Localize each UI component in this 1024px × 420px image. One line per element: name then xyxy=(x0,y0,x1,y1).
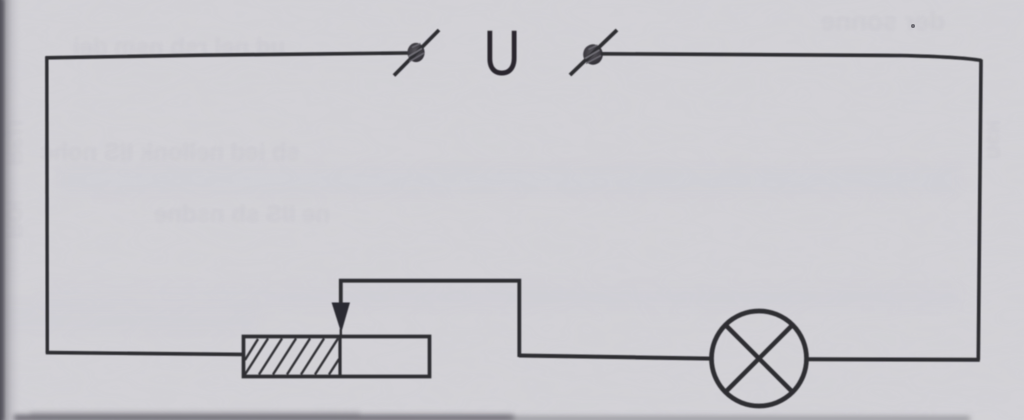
svg-text:der sonne: der sonne xyxy=(821,6,945,36)
wire: bottom middle segment (lamp to step) xyxy=(519,356,712,359)
left gutter shadow xyxy=(0,0,22,420)
faint bleed-through print bands xyxy=(0,165,960,332)
source terminal left xyxy=(394,30,439,76)
source terminal right xyxy=(570,30,617,75)
potentiometer hatched section xyxy=(245,339,339,375)
wire: bottom right segment xyxy=(806,357,980,362)
potentiometer R1 body xyxy=(244,336,430,377)
svg-text:ne IIS sb nsdne: ne IIS sb nsdne xyxy=(154,201,330,228)
wire: top left segment xyxy=(46,53,409,58)
svg-text:U: U xyxy=(484,19,521,90)
bottom shadow xyxy=(14,412,970,420)
lamp L1 xyxy=(712,311,807,406)
wiper arrow xyxy=(332,303,349,336)
svg-text:нэп: нэп xyxy=(983,120,1008,159)
label U xyxy=(484,19,521,90)
wire: right vertical xyxy=(978,60,981,361)
speck xyxy=(911,24,915,28)
wire: top right segment xyxy=(601,54,982,61)
wire: left vertical xyxy=(45,57,49,354)
wire: bottom left segment xyxy=(46,353,243,355)
svg-text:sb ied nellonk IIS nohc: sb ied nellonk IIS nohc xyxy=(40,139,300,166)
wire: wiper step (down-left from lamp wire up over pot) xyxy=(341,281,520,357)
